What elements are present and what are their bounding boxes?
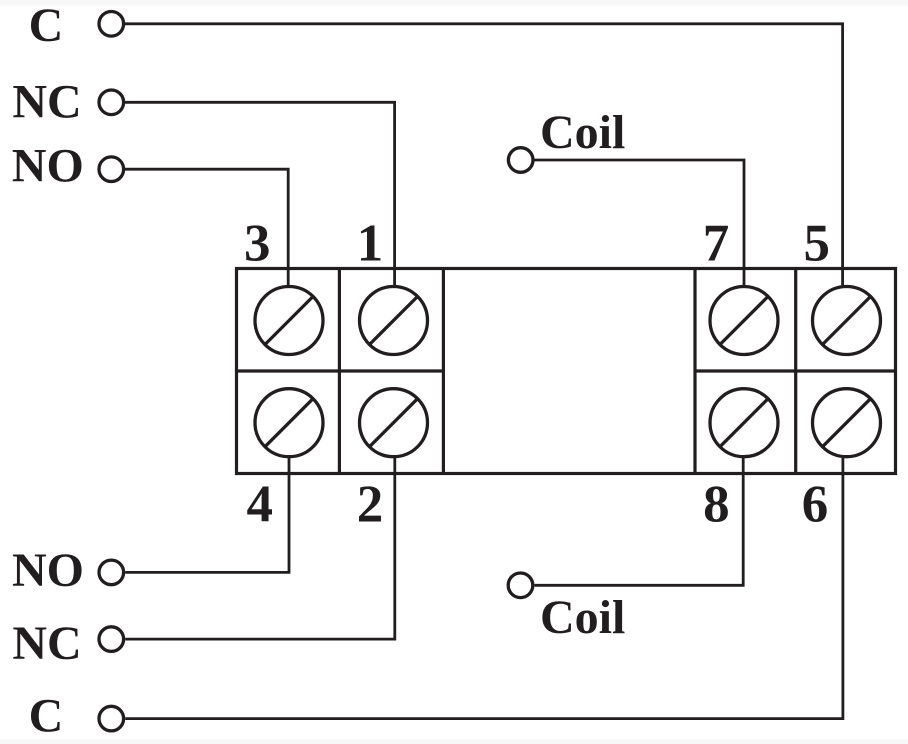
svg-text:NO: NO (12, 140, 84, 193)
svg-text:NO: NO (12, 544, 84, 597)
svg-text:4: 4 (247, 476, 274, 534)
svg-text:1: 1 (357, 215, 384, 273)
svg-text:NC: NC (12, 617, 81, 670)
svg-text:Coil: Coil (540, 106, 625, 159)
svg-text:7: 7 (703, 215, 730, 273)
svg-text:8: 8 (703, 476, 730, 534)
svg-text:2: 2 (357, 476, 384, 534)
svg-text:5: 5 (803, 215, 830, 273)
svg-text:Coil: Coil (540, 591, 625, 644)
svg-text:3: 3 (244, 215, 271, 273)
svg-text:C: C (29, 690, 64, 743)
svg-text:C: C (29, 0, 64, 52)
svg-text:6: 6 (802, 476, 829, 534)
svg-text:NC: NC (12, 75, 81, 128)
